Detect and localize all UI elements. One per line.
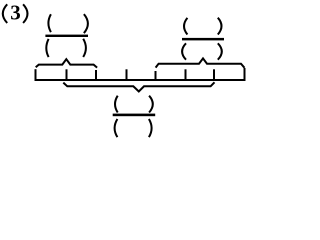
svg-text:3: 3	[10, 1, 20, 25]
